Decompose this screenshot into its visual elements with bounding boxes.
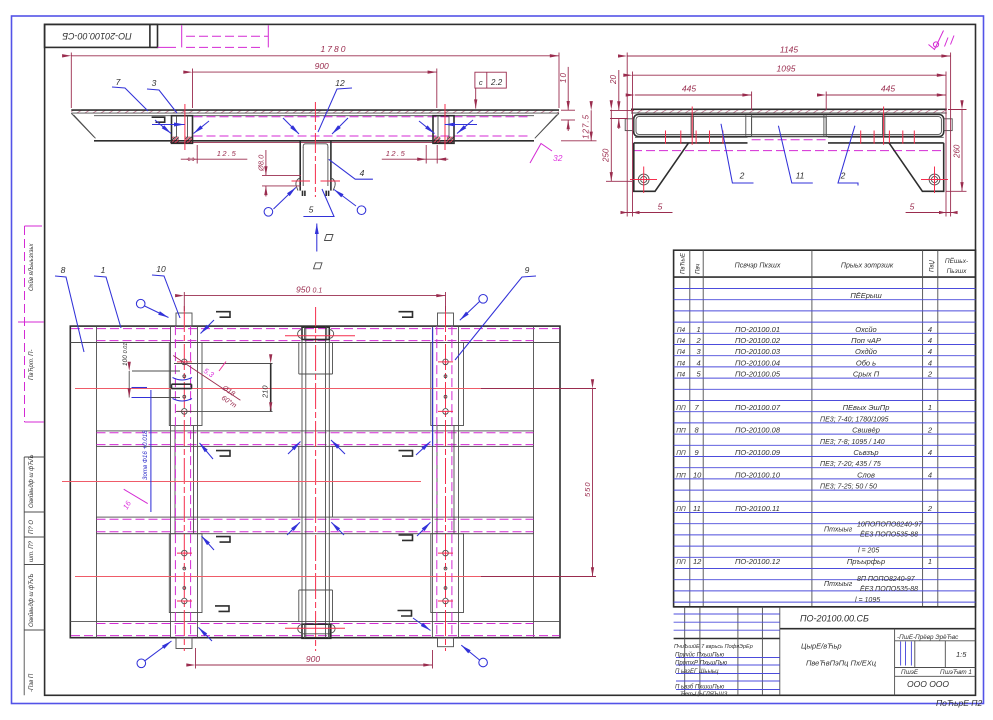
- svg-text:Пьзшх: Пьзшх: [947, 268, 968, 275]
- hidden line center gap: [752, 139, 827, 141]
- svg-text:5: 5: [658, 202, 663, 212]
- svg-text:ПЕ3; 7-20; 435 / 75: ПЕ3; 7-20; 435 / 75: [820, 461, 881, 468]
- dimension 260: [946, 110, 967, 192]
- svg-text:ПО-20100.04: ПО-20100.04: [735, 358, 780, 367]
- svg-text:1780: 1780: [321, 44, 348, 54]
- dimension 1145: [627, 45, 950, 217]
- item 2: [677, 336, 932, 345]
- hole spec diagonal leader: [173, 356, 240, 401]
- svg-text:П? О: П? О: [29, 520, 35, 534]
- dimension 900 top: [193, 61, 437, 108]
- svg-text:П ьвзб ПхшшПью: П ьвзб ПхшшПью: [675, 684, 725, 690]
- front view red axis line along skirt bottom: [170, 141, 452, 143]
- svg-text:ПО-20100.00-СБ: ПО-20100.00-СБ: [62, 31, 132, 41]
- weld arrows center leg feet: [274, 187, 296, 209]
- svg-text:Псвчэр Пкзшх: Псвчэр Пкзшх: [735, 263, 781, 270]
- dimension 12.5 left: [181, 149, 248, 161]
- svg-text:Слов: Слов: [857, 470, 875, 479]
- center runner top tenon: [285, 327, 355, 339]
- magenta copy-mark bracket: [158, 46, 177, 48]
- svg-text:1: 1: [928, 557, 932, 566]
- svg-text:2: 2: [927, 370, 933, 379]
- svg-text:П ьвзЕГ Шьыьц: П ьвзЕГ Шьыьц: [675, 669, 719, 675]
- item 4: [677, 358, 932, 367]
- item 9: [676, 448, 932, 457]
- left margin magenta fold bracket: [24, 226, 26, 422]
- svg-text:Охдйо: Охдйо: [855, 347, 877, 356]
- svg-text:ПО-20100.03: ПО-20100.03: [735, 347, 781, 356]
- magenta hidden lines top rail: [71, 328, 560, 330]
- dimension 250: [602, 110, 633, 182]
- svg-text:Охйв яЉыьзхзьх: Охйв яЉыьзхзьх: [28, 242, 35, 291]
- svg-text:900: 900: [315, 61, 329, 71]
- svg-text:ПвЋрт. П-: ПвЋрт. П-: [29, 350, 35, 381]
- left runner cross-section: [172, 104, 198, 164]
- svg-text:ПшэЋвт 1: ПшэЋвт 1: [940, 669, 972, 676]
- svg-text:7: 7: [116, 77, 121, 87]
- svg-text:1: 1: [697, 325, 701, 334]
- svg-text:5: 5: [910, 202, 915, 212]
- front view hidden deck edges (magenta): [194, 116, 532, 118]
- pink hole-row centerline upper: [75, 388, 481, 390]
- svg-text:ПвЏ: ПвЏ: [930, 260, 936, 272]
- svg-text:ПротхР ПхьшПью: ПротхР ПхьшПью: [675, 660, 728, 666]
- svg-text:1:5: 1:5: [956, 650, 967, 659]
- dimension 1095: [633, 64, 947, 217]
- svg-text:4: 4: [928, 358, 932, 367]
- svg-text:ПО-20100.12: ПО-20100.12: [735, 557, 781, 566]
- svg-text:П4: П4: [677, 372, 686, 379]
- svg-text:ПоЋьрЕ П2: ПоЋьрЕ П2: [936, 698, 982, 708]
- dimension 5 left: [621, 202, 673, 215]
- svg-text:10ПОПОПО8240-97: 10ПОПОПО8240-97: [857, 522, 923, 529]
- left runner holes: [177, 359, 192, 604]
- svg-text:10: 10: [559, 72, 568, 83]
- dimension 445 left: [635, 84, 752, 111]
- svg-text:-Пзв П: -Пзв П: [29, 673, 35, 692]
- pink lateral centerline: [62, 481, 421, 483]
- item 5: [677, 370, 933, 379]
- svg-text:12.5: 12.5: [217, 149, 238, 158]
- svg-text:11: 11: [796, 171, 805, 181]
- svg-text:ПЁшьх-: ПЁшьх-: [945, 257, 969, 265]
- svg-text:П4: П4: [677, 338, 686, 345]
- section label above plan: [314, 263, 323, 269]
- corner weld circles with leaders: [136, 299, 145, 308]
- svg-text:445: 445: [682, 84, 696, 94]
- svg-text:20: 20: [609, 75, 618, 85]
- pink hole-row centerline lower: [75, 576, 481, 578]
- svg-text:ПО-20100.07: ПО-20100.07: [735, 403, 781, 412]
- tube divider 4: [883, 116, 885, 136]
- front view deck top plate hatched strip: [71, 110, 559, 113]
- svg-text:3отв Ф16 +0.018: 3отв Ф16 +0.018: [142, 430, 149, 480]
- svg-text:11: 11: [693, 504, 701, 513]
- item 12: [676, 557, 932, 566]
- svg-text:l = 205: l = 205: [858, 548, 879, 555]
- svg-text:ПО-20100.02: ПО-20100.02: [735, 336, 781, 345]
- svg-text:ПЁЕрыш: ПЁЕрыш: [850, 291, 882, 300]
- svg-text:ПчиЪшйЕ 7 вврьсь ПофяЭрЕр: ПчиЪшйЕ 7 вврьсь ПофяЭрЕр: [674, 643, 753, 650]
- svg-text:4: 4: [697, 358, 701, 367]
- svg-text:Срых П: Срых П: [853, 370, 880, 379]
- svg-text:4: 4: [928, 336, 932, 345]
- weld seam line right runner: [432, 328, 434, 447]
- chamfer note 32 (magenta): [530, 144, 563, 164]
- svg-text:260: 260: [953, 144, 962, 159]
- svg-text:4: 4: [928, 448, 932, 457]
- item 11: [676, 504, 933, 513]
- tube divider 3 (right group start): [824, 115, 826, 137]
- svg-text:8: 8: [61, 265, 66, 275]
- middle rail 2: [97, 431, 534, 447]
- svg-text:Ø8.0: Ø8.0: [257, 154, 266, 172]
- svg-text:ЁЕ3 ПОПО535-88: ЁЕ3 ПОПО535-88: [860, 531, 918, 539]
- spec table header separator: [674, 276, 976, 278]
- tube divider 1: [691, 116, 693, 136]
- svg-text:ПЕ3; 7-8; 1095 / 140: ПЕ3; 7-8; 1095 / 140: [820, 439, 885, 446]
- svg-text:Пручйс ПхьшПью: Пручйс ПхьшПью: [675, 652, 725, 659]
- tube divider 2 (left group end): [746, 115, 752, 137]
- red centerlines at tube dividers: [692, 107, 883, 145]
- top rail lower edge: [70, 342, 560, 344]
- middle rail 3: [97, 517, 534, 534]
- item 10: [676, 470, 932, 479]
- left margin column box: [24, 457, 44, 695]
- svg-text:ПП: ПП: [676, 428, 686, 435]
- svg-text:5: 5: [309, 205, 314, 215]
- svg-text:Пръырфьр: Пръырфьр: [847, 557, 885, 566]
- svg-text:Ћет-ЦЬГЛЯЪШЗ: Ћет-ЦЬГЛЯЪШЗ: [680, 692, 728, 698]
- svg-text:1145: 1145: [780, 45, 799, 55]
- corner stamp box: [45, 24, 158, 47]
- svg-text:900: 900: [306, 654, 320, 664]
- lower flange lines: [635, 136, 944, 138]
- left foot hole: [638, 174, 649, 185]
- svg-text:2.2: 2.2: [490, 78, 503, 87]
- weld dim leg: arrows pair: [257, 150, 302, 197]
- svg-text:Прыьх зотрзшк: Прыьх зотрзшк: [841, 263, 894, 270]
- side view deck hatched strip: [631, 109, 947, 113]
- dimension 210: [174, 364, 273, 412]
- svg-text:ПО-20100.05: ПО-20100.05: [735, 370, 781, 379]
- svg-text:1: 1: [101, 265, 106, 275]
- roughness symbol top right: [929, 31, 955, 50]
- svg-text:ПО-20100.11: ПО-20100.11: [735, 504, 780, 513]
- svg-text:10: 10: [693, 470, 702, 479]
- spec table column lines: [690, 250, 938, 607]
- deck cleat left: [152, 117, 165, 122]
- item 7: [676, 403, 932, 412]
- bottom rail upper edge: [70, 621, 560, 623]
- dimension 550: [583, 389, 593, 577]
- deck edge tab left: [625, 119, 634, 131]
- spec table blue row lines: [674, 289, 976, 603]
- right runner holes: [438, 359, 453, 604]
- magenta slope mark 16: [124, 489, 148, 503]
- dimension 127.5: [561, 110, 597, 141]
- svg-text:Птхыыг: Птхыыг: [824, 581, 853, 588]
- svg-text:ПО-20100.01: ПО-20100.01: [735, 325, 780, 334]
- corner stamp divider: [149, 24, 151, 47]
- svg-text:2: 2: [739, 171, 745, 181]
- weld arrows right runner section: [445, 124, 478, 126]
- left runner body: [169, 306, 202, 651]
- side view tube row outer: [634, 115, 944, 137]
- plan left skirt inner edge: [96, 326, 98, 638]
- right leg: [889, 143, 944, 191]
- svg-text:c: c: [479, 78, 483, 87]
- svg-text:ПЕ3; 7-25; 50 / 50: ПЕ3; 7-25; 50 / 50: [820, 484, 877, 491]
- center runner bottom tenon: [285, 624, 345, 638]
- magenta hidden lines rail2: [97, 432, 534, 434]
- dimension 10 (right of front view): [559, 67, 575, 131]
- svg-text:1095: 1095: [777, 64, 796, 74]
- svg-text:ПП: ПП: [676, 506, 686, 513]
- svg-text:ПО-20100.08: ПО-20100.08: [735, 426, 781, 435]
- svg-text:250: 250: [602, 148, 611, 163]
- svg-text:ЁЕ3 ПОПО535-88: ЁЕ3 ПОПО535-88: [860, 585, 918, 593]
- svg-text:4: 4: [360, 168, 365, 178]
- item 1: [677, 325, 932, 334]
- svg-text:П4: П4: [677, 349, 686, 356]
- cleats in plan: [216, 312, 230, 318]
- svg-text:ПвЋыЕ: ПвЋыЕ: [681, 252, 687, 274]
- item 3: [677, 347, 932, 356]
- svg-text:ПО-20100.00.СБ: ПО-20100.00.СБ: [800, 614, 869, 624]
- svg-text:ПшэЕ: ПшэЕ: [901, 669, 919, 676]
- svg-text:Оакйвьдф ш фЋЉ: Оакйвьдф ш фЋЉ: [28, 454, 35, 508]
- svg-text:Сьвзър: Сьвзър: [853, 448, 878, 457]
- spec table outer box: [674, 250, 976, 607]
- svg-text:-ПшЕ-Прёвр ЭрёЋвс: -ПшЕ-Прёвр ЭрёЋвс: [897, 634, 959, 641]
- title block verticals: [685, 607, 780, 696]
- svg-text:4: 4: [928, 325, 932, 334]
- svg-text:10: 10: [156, 264, 166, 274]
- dimension 445 right: [826, 84, 946, 111]
- svg-text:Обо ь: Обо ь: [856, 358, 876, 367]
- front view skirt bottom edge: [94, 140, 534, 142]
- front view left bevel: [71, 113, 95, 138]
- svg-text:ЦырЕ/вЋьр: ЦырЕ/вЋьр: [801, 642, 842, 651]
- svg-text:ООО ООО: ООО ООО: [907, 679, 949, 689]
- weld arrows center leg top: [283, 118, 299, 134]
- svg-text:Поп чАР: Поп чАР: [851, 336, 881, 345]
- svg-text:Оакйвьдф ш фЋЉ: Оакйвьдф ш фЋЉ: [28, 573, 35, 627]
- svg-text:ПвеЋвПэПц Пх/ЕХц: ПвеЋвПэПц Пх/ЕХц: [806, 658, 877, 667]
- weld arrows plan: [201, 320, 215, 334]
- weld designation box C2.5: [475, 72, 506, 108]
- magenta hidden lines bottom rail: [97, 623, 534, 625]
- left leg: [634, 143, 689, 191]
- title blue row lines left: [674, 614, 780, 690]
- dimension 900 bottom: [196, 648, 433, 669]
- svg-text:ПО-20100.09: ПО-20100.09: [735, 448, 781, 457]
- svg-text:3: 3: [152, 78, 157, 88]
- title block top line: [674, 606, 976, 608]
- svg-text:ПП: ПП: [676, 405, 686, 412]
- svg-text:1: 1: [928, 403, 932, 412]
- right runner body: [431, 306, 464, 651]
- weld circle left: [264, 208, 273, 217]
- svg-text:127.5: 127.5: [582, 114, 591, 139]
- designation cell line: [780, 628, 976, 630]
- red weld ticks left group: [666, 131, 723, 144]
- center leg channel: [296, 141, 335, 196]
- section arrow B (up): [316, 224, 318, 252]
- side view tube row inner: [636, 117, 941, 135]
- svg-text:32: 32: [553, 153, 563, 163]
- left cells header line: [674, 638, 780, 640]
- svg-text:8П ПОПО8240-97: 8П ПОПО8240-97: [857, 576, 916, 583]
- svg-text:4: 4: [928, 470, 932, 479]
- svg-text:П4: П4: [677, 360, 686, 367]
- title block right block: [894, 629, 896, 696]
- dimension 12.5 right: [382, 149, 449, 161]
- weld arrows left runner section: [152, 124, 185, 126]
- svg-text:ПП: ПП: [676, 472, 686, 479]
- hole note 3 otv: [132, 378, 193, 513]
- svg-text:Свшвёр: Свшвёр: [852, 426, 880, 435]
- svg-text:ПЕвых ЭшПр: ПЕвых ЭшПр: [843, 403, 890, 412]
- svg-text:4: 4: [928, 347, 932, 356]
- svg-text:100 0.01: 100 0.01: [122, 343, 129, 366]
- svg-text:ПП: ПП: [676, 450, 686, 457]
- svg-text:Пвч: Пвч: [696, 264, 702, 274]
- plan outer rectangle: [70, 326, 560, 638]
- dimension 1780: [71, 44, 559, 108]
- dimension 5 right: [906, 202, 958, 215]
- svg-text:550: 550: [583, 481, 592, 497]
- svg-text:9: 9: [525, 265, 530, 275]
- svg-text:l = 1095: l = 1095: [855, 597, 880, 604]
- svg-text:12.5: 12.5: [386, 149, 407, 158]
- svg-text:ПЕ3; 7-40; 1780/1095: ПЕ3; 7-40; 1780/1095: [820, 416, 889, 423]
- svg-text:Птхыыг: Птхыыг: [824, 527, 853, 534]
- magenta hidden lines rail3: [97, 518, 534, 520]
- dimension 20: [609, 70, 634, 129]
- hidden line full width: [633, 150, 944, 152]
- plan right skirt inner edge: [533, 326, 535, 638]
- svg-text:Охсйо: Охсйо: [855, 325, 876, 334]
- svg-text:шт. П?: шт. П?: [29, 540, 35, 562]
- svg-text:ПО-20100.10: ПО-20100.10: [735, 470, 781, 479]
- right runner cross-section: [426, 104, 454, 164]
- svg-text:ПП: ПП: [676, 559, 686, 566]
- front view deck lower flange line: [94, 115, 534, 117]
- svg-text:12: 12: [335, 78, 345, 88]
- deck edge tab right: [944, 119, 953, 131]
- front view right bevel: [535, 113, 559, 138]
- right foot hole: [929, 174, 940, 185]
- svg-text:445: 445: [881, 84, 895, 94]
- svg-text:12: 12: [693, 557, 702, 566]
- svg-text:П4: П4: [677, 327, 686, 334]
- item 8: [676, 426, 933, 435]
- dimension 100 0.01: [122, 343, 180, 398]
- section label square: [325, 235, 334, 241]
- svg-text:2: 2: [927, 504, 933, 513]
- svg-text:2: 2: [696, 336, 702, 345]
- center leg red centerline: [314, 102, 316, 197]
- svg-text:2: 2: [927, 426, 933, 435]
- center runner body: [299, 307, 333, 651]
- center leg foot red marks: [292, 180, 311, 182]
- dimension 950 0.1: [184, 285, 445, 312]
- svg-text:210: 210: [261, 385, 270, 399]
- center web rect: [752, 117, 827, 137]
- weld circle right: [357, 206, 366, 215]
- red weld ticks right group: [861, 131, 915, 144]
